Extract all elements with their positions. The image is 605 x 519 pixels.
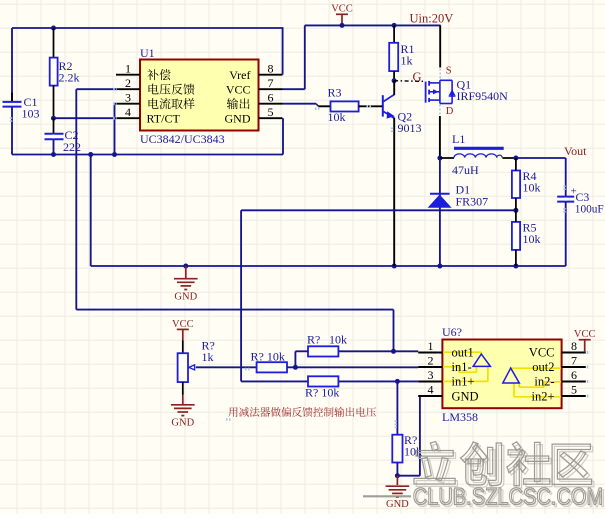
svg-text:1: 1 (125, 61, 131, 75)
svg-text:VCC: VCC (226, 83, 251, 97)
svg-text:FR307: FR307 (456, 195, 489, 209)
svg-text:47uH: 47uH (452, 163, 479, 177)
svg-text:Vref: Vref (229, 68, 250, 82)
svg-text:L1: L1 (452, 132, 465, 146)
svg-text:GND: GND (171, 418, 194, 429)
svg-text:10k: 10k (523, 232, 541, 246)
svg-text:VCC: VCC (529, 346, 555, 360)
svg-text:2: 2 (125, 76, 131, 90)
svg-text:222: 222 (63, 140, 81, 154)
svg-text:VCC: VCC (574, 329, 596, 340)
svg-text:IRF9540N: IRF9540N (457, 89, 509, 103)
svg-text:VCC: VCC (172, 319, 194, 330)
svg-text:Vout: Vout (564, 144, 587, 158)
svg-text:2: 2 (428, 354, 434, 368)
svg-text:Uin:20V: Uin:20V (410, 12, 454, 26)
svg-text:out1: out1 (452, 346, 474, 360)
svg-text:7: 7 (571, 354, 577, 368)
svg-text:5: 5 (571, 383, 577, 397)
svg-text:CLUB.SZLCSC.COM: CLUB.SZLCSC.COM (413, 483, 604, 510)
svg-text:GND: GND (386, 499, 409, 510)
svg-text:R3: R3 (328, 86, 342, 100)
svg-text:8: 8 (571, 339, 577, 353)
svg-text:9013: 9013 (398, 121, 422, 135)
svg-text:G: G (413, 70, 422, 84)
svg-text:S: S (446, 66, 452, 77)
svg-text:4: 4 (125, 105, 131, 119)
svg-text:U1: U1 (140, 46, 155, 60)
svg-text:4: 4 (428, 383, 434, 397)
svg-text:GND: GND (174, 292, 197, 303)
svg-text:in2+: in2+ (531, 390, 554, 404)
svg-text:10k: 10k (328, 110, 346, 124)
svg-text:U6?: U6? (442, 325, 462, 339)
svg-text:R? 10k: R? 10k (251, 350, 285, 364)
svg-text:7: 7 (268, 76, 274, 90)
svg-text:1k: 1k (202, 350, 214, 364)
svg-text:1: 1 (428, 339, 434, 353)
svg-text:10k: 10k (329, 333, 347, 347)
svg-text:6: 6 (268, 90, 274, 104)
svg-text:LM358: LM358 (442, 410, 478, 424)
svg-text:RT/CT: RT/CT (147, 112, 181, 126)
svg-text:6: 6 (571, 368, 577, 382)
svg-text:2.2k: 2.2k (59, 71, 80, 85)
svg-text:1k: 1k (401, 54, 413, 68)
svg-text:3: 3 (125, 90, 131, 104)
svg-text:3: 3 (428, 368, 434, 382)
svg-text:in1-: in1- (452, 360, 472, 374)
svg-text:100uF: 100uF (575, 204, 604, 216)
svg-text:in2-: in2- (534, 375, 554, 389)
svg-text:out2: out2 (532, 360, 554, 374)
svg-text:D: D (446, 106, 454, 117)
svg-text:VCC: VCC (331, 4, 353, 15)
svg-text:8: 8 (268, 61, 274, 75)
svg-text:R?: R? (307, 333, 320, 347)
svg-text:5: 5 (268, 105, 274, 119)
svg-text:GND: GND (225, 112, 251, 126)
svg-text:UC3842/UC3843: UC3842/UC3843 (140, 132, 225, 146)
svg-text:R? 10k: R? 10k (305, 386, 339, 400)
svg-text:in1+: in1+ (452, 375, 475, 389)
svg-text:C3: C3 (576, 190, 590, 204)
svg-text:GND: GND (452, 390, 479, 404)
svg-text:103: 103 (22, 107, 40, 121)
svg-text:10k: 10k (523, 181, 541, 195)
